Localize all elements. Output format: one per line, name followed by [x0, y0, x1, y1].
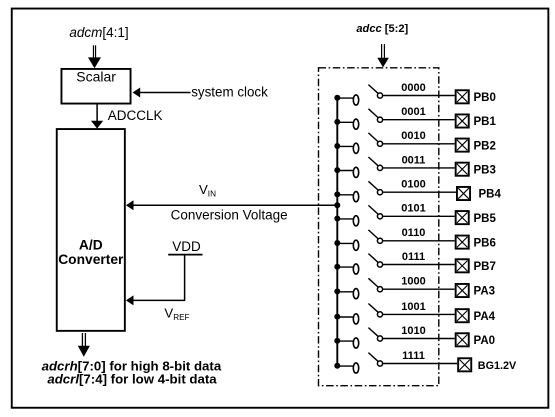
svg-text:VDD: VDD: [172, 239, 201, 254]
svg-text:ADCCLK: ADCCLK: [108, 108, 163, 123]
svg-text:adcm[4:1]: adcm[4:1]: [69, 25, 128, 40]
svg-text:PB6: PB6: [474, 237, 496, 249]
svg-text:1001: 1001: [401, 301, 425, 313]
svg-text:PB7: PB7: [474, 261, 496, 273]
svg-text:adcc [5:2]: adcc [5:2]: [356, 23, 408, 35]
svg-text:PB2: PB2: [474, 140, 496, 152]
svg-text:0100: 0100: [401, 179, 425, 191]
svg-text:PA0: PA0: [474, 335, 496, 347]
svg-text:adcrl[7:4] for low 4-bit data: adcrl[7:4] for low 4-bit data: [47, 371, 217, 386]
svg-text:1010: 1010: [401, 325, 425, 337]
svg-text:PB4: PB4: [479, 189, 502, 201]
svg-text:Scalar: Scalar: [76, 69, 116, 85]
svg-text:1111: 1111: [402, 350, 425, 362]
svg-text:PB1: PB1: [474, 116, 497, 128]
svg-text:0000: 0000: [401, 82, 425, 94]
svg-text:PB3: PB3: [474, 164, 496, 176]
svg-text:Converter: Converter: [58, 252, 124, 267]
svg-text:A/D: A/D: [79, 237, 103, 252]
svg-text:PB0: PB0: [474, 92, 496, 104]
svg-text:0011: 0011: [402, 154, 426, 166]
svg-text:PA4: PA4: [474, 311, 496, 323]
svg-text:0001: 0001: [401, 106, 425, 118]
svg-text:0010: 0010: [401, 130, 425, 142]
svg-text:Conversion Voltage: Conversion Voltage: [171, 207, 288, 222]
svg-text:PB5: PB5: [474, 213, 497, 225]
svg-text:PA3: PA3: [474, 286, 496, 298]
svg-text:0101: 0101: [401, 203, 425, 215]
svg-text:0111: 0111: [402, 251, 425, 263]
svg-text:system clock: system clock: [191, 84, 268, 99]
svg-text:0110: 0110: [402, 227, 426, 239]
svg-text:BG1.2V: BG1.2V: [478, 360, 517, 372]
svg-text:1000: 1000: [401, 276, 425, 288]
